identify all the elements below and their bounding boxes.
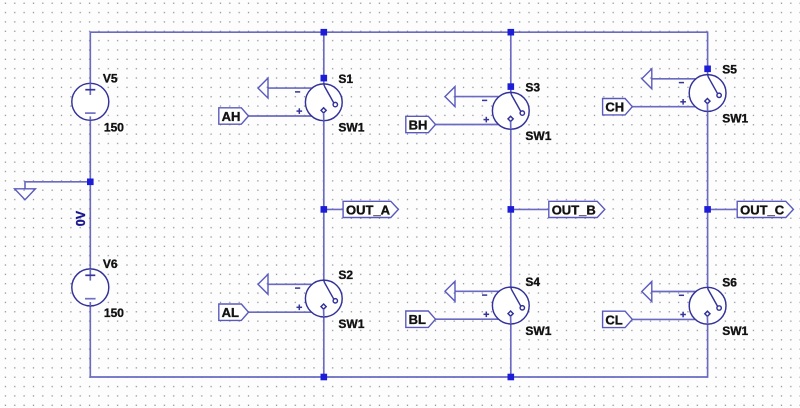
junction top bus / column A [321,29,328,36]
wire ground branch [25,181,90,183]
svg-text:S5: S5 [722,63,737,77]
junction bottom bus / column A [321,374,328,381]
wire node OUT_C stub [708,208,738,210]
switch S2 (AL leg) [249,280,343,317]
wire column B segment 1 [510,31,512,92]
svg-text:SW1: SW1 [722,324,748,338]
svg-text:0V: 0V [74,210,88,226]
wire left rail upper [89,31,91,83]
node CH port flag [603,99,633,115]
wire left rail middle [89,120,91,269]
svg-text:S4: S4 [525,275,540,289]
svg-text:SW1: SW1 [338,121,364,135]
wire column B segment 2 [510,129,512,287]
svg-text:SW1: SW1 [525,129,551,143]
svg-text:S2: S2 [338,268,353,282]
wire left rail lower [89,306,91,378]
wire column B segment 3 [510,324,512,378]
svg-text:S3: S3 [525,80,540,94]
junction top bus / column B [508,29,515,36]
node OUT_B port flag [549,201,605,217]
switch S4 (BL leg) [436,287,530,324]
junction at OUT_B [508,206,515,213]
control arrow flag of S6 [642,282,652,302]
node AH port flag [219,108,249,124]
svg-text:150: 150 [104,120,124,134]
switch S6 (CL leg) [632,287,726,324]
wire node OUT_A stub [324,208,343,210]
svg-text:S6: S6 [722,275,737,289]
junction at S5 top pin [704,66,711,73]
junction ground tap [87,179,94,186]
svg-text:150: 150 [104,306,124,320]
voltage source V6 [72,257,124,320]
node AL port flag [219,304,249,320]
wire column A segment 3 [323,317,325,378]
node OUT_A port flag [343,201,398,217]
wire bottom bus [90,376,707,378]
junction at OUT_C [704,206,711,213]
svg-text:CL: CL [605,312,622,327]
wire column A segment 2 [323,121,325,281]
svg-text:V6: V6 [103,257,118,271]
control arrow flag of S4 [445,281,455,301]
node OUT_C port flag [737,201,793,217]
svg-text:V5: V5 [103,72,118,86]
wire column A segment 1 [323,31,325,84]
wire node OUT_B stub [511,208,549,210]
svg-text:S1: S1 [338,72,353,86]
ground [15,189,36,200]
svg-text:SW1: SW1 [525,324,551,338]
svg-text:CH: CH [605,100,624,115]
wire top bus [90,31,707,33]
wire column C segment 2 [707,111,709,287]
svg-text:OUT_B: OUT_B [552,202,596,217]
switch S1 (AH leg) [249,84,343,121]
svg-text:OUT_A: OUT_A [346,202,391,217]
voltage source V5 [72,72,124,135]
control arrow flag of S1 [258,78,268,98]
junction at S1 top pin [321,75,328,82]
junction bottom bus / column B [508,374,515,381]
control arrow flag of S5 [642,69,652,89]
svg-text:BH: BH [409,118,428,133]
junction at OUT_A [321,206,328,213]
node BH port flag [406,116,436,132]
junction at S3 top pin [508,83,515,90]
control arrow flag of S3 [445,87,455,107]
svg-text:AH: AH [222,109,241,124]
node BL port flag [406,311,436,327]
svg-text:SW1: SW1 [338,317,364,331]
wire column C segment 1 [707,31,709,74]
svg-text:OUT_C: OUT_C [740,202,785,217]
switch S3 (BH leg) [436,92,530,129]
wire column C segment 3 [707,324,709,378]
node CL port flag [603,311,633,327]
svg-text:SW1: SW1 [722,111,748,125]
switch S5 (CH leg) [632,75,726,112]
control arrow flag of S2 [258,274,268,294]
svg-text:BL: BL [409,312,426,327]
svg-text:AL: AL [222,305,239,320]
